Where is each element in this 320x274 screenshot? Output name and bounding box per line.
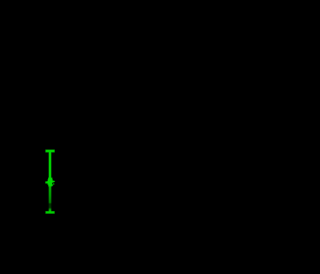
node star bottom shoulder: [49, 184, 53, 186]
top cap mid halo: [45, 150, 54, 153]
node star left arm: [46, 182, 48, 184]
node star top shoulder: [48, 178, 52, 180]
bottom cap: [46, 211, 55, 213]
wire upper segment mid halo: [49, 150, 52, 187]
wire upper segment: [49, 150, 51, 187]
node star left arm mid halo: [45, 181, 48, 183]
bottom cap outer halo: [45, 211, 55, 214]
wire lower segment (fading): [49, 186, 51, 212]
node star marker outer halo: [46, 177, 55, 188]
node star lower-right nub: [53, 183, 54, 185]
bottom cap mid halo: [46, 211, 55, 214]
node star marker mid halo: [46, 177, 55, 188]
node star notch: [52, 182, 55, 185]
wire lower segment mid halo: [49, 186, 52, 212]
wire upper segment outer halo: [48, 150, 51, 187]
node star right arm: [53, 181, 55, 182]
node star shoulder mid halos: [48, 178, 52, 180]
top cap outer halo: [45, 149, 55, 152]
top cap: [46, 150, 55, 152]
node star marker: [46, 177, 55, 188]
wire lower segment outer halo: [48, 186, 51, 212]
